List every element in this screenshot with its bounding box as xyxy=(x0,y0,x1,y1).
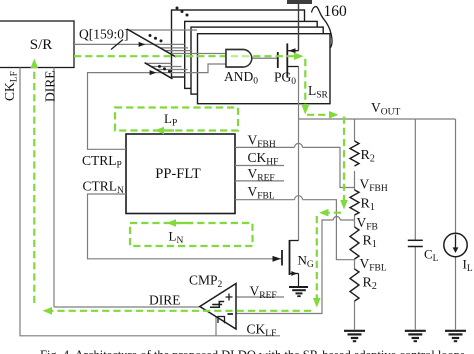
wire CTRL_N from PP-FLT left down to N_G gate xyxy=(88,194,283,259)
green arrow left on bottom return xyxy=(43,307,53,315)
capacitor C_L xyxy=(408,240,423,246)
cell box front xyxy=(198,34,331,104)
wire fan1 line b xyxy=(160,47,188,49)
green arrow on L_N box xyxy=(167,219,177,227)
wire green highlight path through AND0 and PG0 xyxy=(74,55,295,57)
svg-text:Fig. 4. Architecture of the: Fig. 4. Architecture of the proposed DLD… xyxy=(40,348,468,354)
wire green highlight bottom return to S/R xyxy=(34,66,311,311)
wire V_FBH from PP-FLT to divider tap with hop xyxy=(235,147,355,187)
green arrow down before CMP2 minus xyxy=(313,298,321,308)
cell box 2 xyxy=(185,21,318,88)
wire fan2 front line with jog to AND0 bottom input xyxy=(163,64,226,73)
N_G source arrow xyxy=(291,271,297,276)
ground under resistor chain xyxy=(344,331,365,341)
wire Q bus from S/R xyxy=(74,43,185,45)
CMP2 minus sign xyxy=(228,313,234,315)
wire CK_LF vertical from S/R down and along bottom to CMP2 clock xyxy=(20,68,280,336)
wire fan1 line d to AND0 top input xyxy=(170,53,226,55)
svg-text:DIRE: DIRE xyxy=(43,71,58,103)
wire CTRL_P from PP-FLT left up to fan diagonal xyxy=(88,73,164,150)
PP-FLT box xyxy=(126,134,235,214)
fan diagonal 1 xyxy=(127,29,176,57)
wire AND0 output to PG0 gate xyxy=(252,57,278,59)
PG0 source arrow xyxy=(288,48,295,53)
wire fan1 line a xyxy=(129,29,197,31)
green arrow right on V_OUT xyxy=(329,111,339,119)
wire DIRE vertical from S/R down to comparator output xyxy=(53,68,55,308)
CMP2 clock input mark xyxy=(218,317,225,324)
resistor R1 lower xyxy=(350,227,359,259)
svg-text:PP-FLT: PP-FLT xyxy=(155,166,201,182)
ground under N_G xyxy=(289,287,308,296)
wire DIRE horizontal from CMP2 apex to DIRE vertical xyxy=(54,306,200,308)
wire fan2 line c xyxy=(156,69,187,71)
wire green highlight L_SR down to V_OUT xyxy=(304,59,306,107)
wire V_FBL from PP-FLT to divider tap with hop xyxy=(235,200,355,260)
VDD stem to PG0 source xyxy=(298,4,300,51)
AND gate interior overlay to fade highlight xyxy=(226,50,252,68)
wire green highlight along V_OUT rail xyxy=(307,115,344,202)
ellipsis dots on fan 1 xyxy=(149,34,163,42)
arrowhead on CTRL_P fan line xyxy=(150,70,157,75)
S/R box xyxy=(0,21,74,68)
wire resistor chain stems xyxy=(354,119,356,330)
wire PG0 drain / V_OUT sense vertical down to N_G drain xyxy=(298,67,300,241)
cell box back xyxy=(172,10,305,77)
green arrow tails xyxy=(164,131,193,224)
wire V_REF to CMP2 plus input xyxy=(235,296,284,298)
green arrow left at V_FB xyxy=(319,209,329,217)
resistor R2 upper xyxy=(350,141,359,166)
green arrow on L_P box xyxy=(155,127,165,135)
green arrow down at R1 xyxy=(340,200,348,210)
comparator CMP2 xyxy=(200,284,236,330)
green arrow into PG0 xyxy=(294,52,304,60)
svg-text:Q[159:0]: Q[159:0] xyxy=(79,27,129,42)
wire fan2 line a xyxy=(146,62,172,64)
wire V_REF stub at PP-FLT xyxy=(235,180,284,182)
loop label box L_N xyxy=(130,223,253,246)
ellipsis dots on stacked boxes corner xyxy=(176,7,189,17)
green arrow up into S/R xyxy=(31,59,39,69)
loop label box L_P xyxy=(115,108,238,131)
wire CK_HF stub xyxy=(235,165,284,167)
wire V_FB tap to CMP2 minus input with hop xyxy=(235,220,354,314)
transistor PG0 (PMOS pass gate) xyxy=(278,43,299,77)
resistor R1 upper xyxy=(350,190,359,215)
AND gate AND0 xyxy=(226,50,252,68)
wire green highlight left at V_FB xyxy=(317,213,341,299)
cell box 3 xyxy=(191,27,323,94)
svg-text:CTRLP: CTRLP xyxy=(82,153,122,171)
svg-text:AND0: AND0 xyxy=(224,69,258,87)
svg-text:S/R: S/R xyxy=(30,37,53,53)
hop of V_FB wire over V_FBL vertical xyxy=(333,217,340,220)
arrowhead on N_G gate wire xyxy=(273,256,282,262)
wire V_OUT rail xyxy=(299,118,456,120)
arrowhead on Q bus xyxy=(139,42,146,47)
svg-text:CMP2: CMP2 xyxy=(189,273,223,291)
wire fan1 line c xyxy=(164,50,193,52)
ground under C_L xyxy=(405,331,426,341)
stacked gate/driver cell boxes xyxy=(172,10,331,104)
wire fan2 line b xyxy=(151,66,182,68)
ellipsis dots on fan 2 xyxy=(158,65,171,73)
green arrow down to V_OUT xyxy=(302,105,310,115)
hop of V_FBH wire over V_OUT sense line xyxy=(295,143,303,147)
wire C_L branch xyxy=(414,119,416,330)
svg-text:160: 160 xyxy=(324,3,348,20)
CMP2 plus sign xyxy=(226,294,233,301)
wire CMP2 clock input vertical xyxy=(215,317,217,336)
hop of V_FBL wire over V_OUT sense line xyxy=(295,196,303,200)
resistor R2 lower xyxy=(350,269,359,301)
brace for 160 cells xyxy=(312,7,333,48)
wire I_L branch xyxy=(455,119,457,330)
svg-text:DIRE: DIRE xyxy=(149,293,181,308)
transistor N_G (NMOS) xyxy=(282,240,299,286)
current source I_L xyxy=(444,233,467,256)
CMP2 hysteresis symbol xyxy=(210,302,224,308)
fan diagonal 2 xyxy=(145,63,173,79)
VDD supply bar xyxy=(287,0,312,4)
ground under I_L xyxy=(445,331,466,341)
bus slash on Q bus xyxy=(111,40,123,50)
